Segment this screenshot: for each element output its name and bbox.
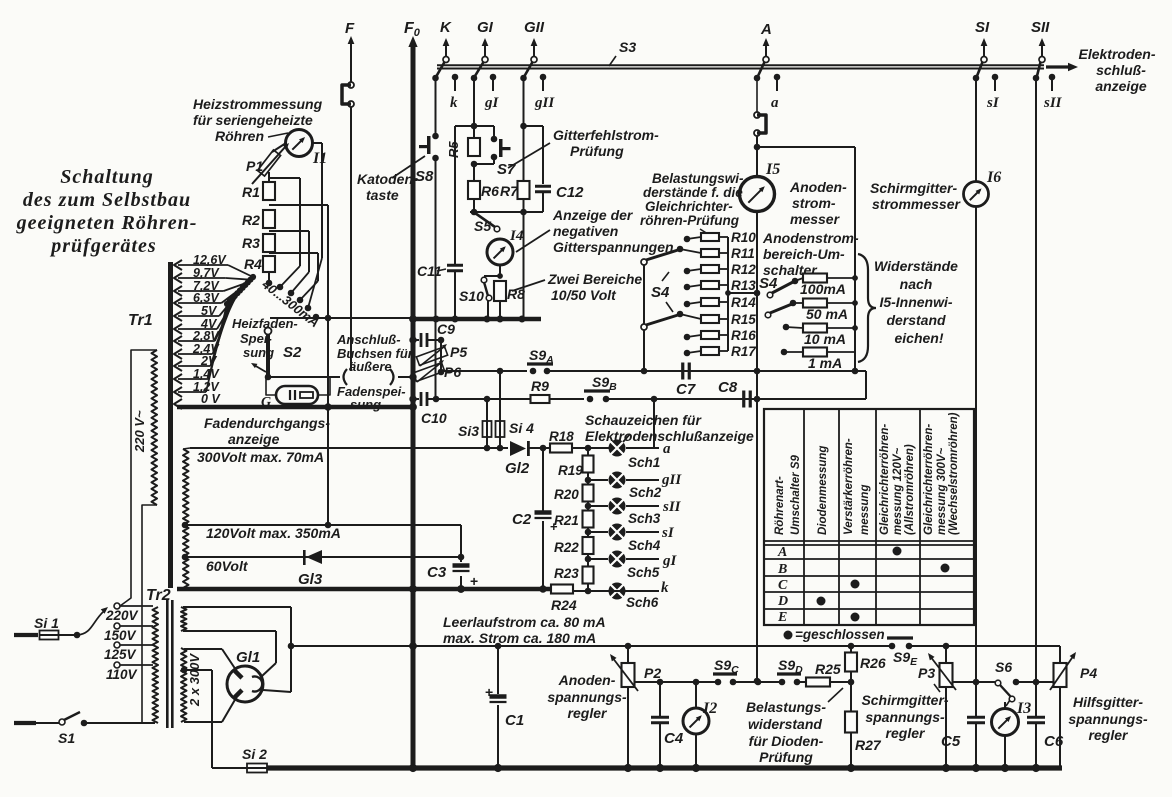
svg-text:Elektroden-: Elektroden- [1078, 46, 1155, 62]
svg-text:Hilfsgitter-: Hilfsgitter- [1073, 694, 1143, 710]
svg-text:C5: C5 [941, 733, 961, 750]
svg-text:Widerstände: Widerstände [874, 258, 958, 274]
svg-text:I1: I1 [312, 150, 327, 167]
svg-text:Anschluß-: Anschluß- [336, 332, 401, 347]
svg-text:C2: C2 [512, 511, 532, 528]
svg-text:bereich-Um-: bereich-Um- [763, 246, 845, 262]
svg-text:Schauzeichen für: Schauzeichen für [585, 412, 702, 428]
svg-text:gII: gII [534, 95, 555, 111]
svg-text:R16: R16 [731, 328, 756, 343]
svg-text:Röhrenart-: Röhrenart- [774, 476, 786, 535]
svg-text:taste: taste [366, 187, 399, 203]
svg-text:geeigneten Röhren-: geeigneten Röhren- [16, 212, 198, 234]
svg-text:derstände f. die: derstände f. die [643, 185, 743, 200]
svg-text:60Volt: 60Volt [206, 558, 249, 574]
svg-text:C10: C10 [421, 410, 447, 426]
svg-text:prüfgerätes: prüfgerätes [49, 235, 156, 257]
svg-text:spannungs-: spannungs- [865, 709, 945, 725]
svg-text:Si 1: Si 1 [34, 615, 59, 631]
svg-text:R19: R19 [558, 463, 583, 478]
svg-text:Elektrodenschlußanzeige: Elektrodenschlußanzeige [585, 428, 754, 444]
svg-text:S1: S1 [58, 730, 75, 746]
svg-text:R12: R12 [731, 262, 756, 277]
svg-text:Si 4: Si 4 [509, 420, 534, 436]
svg-text:R17: R17 [731, 344, 757, 359]
svg-text:S6: S6 [995, 659, 1012, 675]
svg-text:R10: R10 [731, 230, 756, 245]
svg-text:I4: I4 [509, 228, 524, 244]
svg-text:spannungs-: spannungs- [547, 689, 627, 705]
svg-text:SII: SII [1031, 19, 1050, 36]
svg-text:Tr1: Tr1 [128, 312, 153, 329]
svg-text:Gleichrichterröhren-: Gleichrichterröhren- [879, 424, 891, 535]
svg-text:regler: regler [1089, 727, 1129, 743]
svg-text:R6: R6 [481, 183, 499, 199]
svg-text:C6: C6 [1044, 733, 1064, 750]
svg-text:sI: sI [661, 525, 675, 541]
svg-text:R2: R2 [242, 212, 260, 228]
svg-text:220 V~: 220 V~ [132, 410, 147, 453]
svg-text:R5: R5 [446, 141, 461, 158]
svg-text:R13: R13 [731, 278, 756, 293]
svg-text:gII: gII [661, 472, 682, 488]
svg-text:C7: C7 [676, 381, 696, 398]
svg-text:110V: 110V [106, 667, 138, 682]
svg-text:100mA: 100mA [800, 281, 846, 297]
svg-text:C12: C12 [556, 184, 584, 201]
svg-text:0 V: 0 V [201, 392, 221, 406]
svg-text:äußere: äußere [349, 359, 392, 374]
svg-text:sI: sI [986, 95, 1000, 111]
svg-text:Gitterfehlstrom-: Gitterfehlstrom- [553, 127, 659, 143]
svg-text:G: G [261, 395, 271, 410]
svg-text:messung 120V~: messung 120V~ [892, 447, 904, 535]
svg-text:P5: P5 [450, 344, 467, 360]
svg-text:Röhren: Röhren [215, 128, 264, 144]
svg-text:k: k [661, 580, 669, 596]
svg-text:S3: S3 [619, 39, 636, 55]
svg-text:E: E [777, 610, 787, 625]
svg-text:Prüfung: Prüfung [570, 143, 624, 159]
svg-text:messung: messung [859, 485, 871, 536]
svg-text:Gl2: Gl2 [505, 460, 530, 477]
svg-text:C8: C8 [718, 379, 738, 396]
svg-text:S5: S5 [474, 218, 491, 234]
svg-text:für seriengeheizte: für seriengeheizte [193, 112, 313, 128]
svg-text:Gl3: Gl3 [298, 571, 323, 588]
svg-text:R15: R15 [731, 312, 756, 327]
svg-text:Sch5: Sch5 [627, 565, 660, 580]
svg-text:Sch3: Sch3 [628, 511, 661, 526]
svg-text:anzeige: anzeige [1095, 78, 1147, 94]
svg-text:eichen!: eichen! [894, 330, 943, 346]
svg-text:nach: nach [900, 276, 933, 292]
svg-text:sung: sung [350, 397, 381, 412]
svg-text:Sch4: Sch4 [628, 538, 661, 553]
svg-text:regler: regler [568, 705, 608, 721]
svg-text:10 mA: 10 mA [804, 331, 846, 347]
svg-text:k: k [450, 95, 458, 111]
svg-text:Schirmgitter-: Schirmgitter- [870, 180, 957, 196]
svg-text:P2: P2 [644, 665, 661, 681]
svg-text:K: K [440, 19, 452, 36]
svg-text:R14: R14 [731, 295, 756, 310]
svg-text:(Allstromröhren): (Allstromröhren) [904, 444, 916, 535]
svg-text:Gl1: Gl1 [236, 649, 260, 666]
svg-text:für Dioden-: für Dioden- [749, 733, 824, 749]
svg-text:derstand: derstand [886, 312, 946, 328]
svg-text:I5: I5 [765, 161, 780, 178]
svg-text:Anodenstrom-: Anodenstrom- [762, 230, 859, 246]
svg-text:P3: P3 [918, 665, 935, 681]
svg-text:R22: R22 [554, 540, 579, 555]
svg-text:Schirmgitter-: Schirmgitter- [861, 692, 948, 708]
svg-text:Heizstrommessung: Heizstrommessung [193, 96, 323, 112]
svg-text:P1: P1 [246, 158, 263, 174]
svg-text:R3: R3 [242, 235, 260, 251]
svg-text:F: F [345, 20, 355, 37]
svg-text:+: + [470, 573, 478, 589]
svg-text:GII: GII [524, 19, 545, 36]
svg-text:+: + [550, 519, 558, 534]
svg-text:C4: C4 [664, 730, 684, 747]
svg-text:2 x 300V: 2 x 300V [187, 653, 202, 707]
svg-text:röhren-Prüfung: röhren-Prüfung [640, 213, 740, 228]
svg-text:Prüfung: Prüfung [759, 749, 813, 765]
svg-text:Si3: Si3 [458, 423, 479, 439]
svg-text:Zwei Bereiche: Zwei Bereiche [547, 271, 642, 287]
svg-text:Anoden-: Anoden- [558, 672, 616, 688]
svg-text:Gleichrichter-: Gleichrichter- [645, 199, 733, 214]
svg-text:Umschalter S9: Umschalter S9 [790, 454, 802, 535]
svg-text:=geschlossen: =geschlossen [795, 627, 885, 642]
svg-text:max. Strom ca. 180 mA: max. Strom ca. 180 mA [443, 630, 596, 646]
svg-text:Gleichrichterröhren-: Gleichrichterröhren- [923, 424, 935, 535]
svg-text:R25: R25 [815, 661, 841, 677]
svg-text:SI: SI [975, 19, 990, 36]
svg-text:Anoden-: Anoden- [789, 179, 847, 195]
svg-text:I6: I6 [986, 169, 1001, 186]
svg-text:C3: C3 [427, 564, 447, 581]
svg-text:strommesser: strommesser [872, 196, 961, 212]
svg-text:R18: R18 [549, 429, 574, 444]
svg-text:R24: R24 [551, 597, 577, 613]
svg-text:spannungs-: spannungs- [1068, 711, 1148, 727]
svg-text:I3: I3 [1016, 700, 1031, 717]
svg-text:Si 2: Si 2 [242, 746, 267, 762]
svg-text:I2: I2 [702, 700, 717, 717]
svg-text:R20: R20 [554, 487, 579, 502]
svg-text:Katoden-: Katoden- [357, 171, 418, 187]
svg-text:gI: gI [484, 95, 500, 111]
svg-text:300Volt max. 70mA: 300Volt max. 70mA [197, 449, 324, 465]
svg-text:B: B [777, 562, 787, 577]
svg-text:I5-Innenwi-: I5-Innenwi- [879, 294, 952, 310]
svg-text:125V: 125V [104, 647, 137, 662]
svg-text:schluß-: schluß- [1096, 62, 1146, 78]
svg-text:120Volt max. 350mA: 120Volt max. 350mA [206, 525, 341, 541]
svg-text:S4: S4 [651, 284, 670, 301]
svg-text:Verstärkerröhren-: Verstärkerröhren- [843, 438, 855, 535]
svg-text:A: A [777, 545, 787, 560]
svg-text:sung: sung [243, 345, 274, 360]
svg-text:Belastungswi-: Belastungswi- [652, 171, 744, 186]
svg-text:messer: messer [790, 211, 841, 227]
svg-text:S8: S8 [415, 168, 434, 185]
svg-text:sII: sII [1043, 95, 1063, 111]
svg-text:GI: GI [477, 19, 494, 36]
svg-text:messung 300V~: messung 300V~ [936, 447, 948, 535]
svg-text:Sch6: Sch6 [626, 595, 659, 610]
svg-text:Anzeige der: Anzeige der [552, 207, 634, 223]
svg-text:R4: R4 [244, 256, 262, 272]
svg-text:Sch2: Sch2 [629, 485, 662, 500]
svg-text:(Wechselstromröhren): (Wechselstromröhren) [948, 412, 960, 535]
svg-text:R11: R11 [731, 246, 755, 261]
svg-text:gI: gI [662, 553, 678, 569]
svg-text:a: a [771, 95, 779, 111]
svg-text:negativen: negativen [553, 223, 618, 239]
svg-text:S2: S2 [283, 344, 302, 361]
svg-text:sII: sII [662, 499, 682, 515]
svg-text:R1: R1 [242, 184, 260, 200]
svg-text:R26: R26 [860, 655, 886, 671]
svg-text:A: A [760, 21, 772, 38]
svg-text:widerstand: widerstand [748, 716, 822, 732]
svg-text:10/50 Volt: 10/50 Volt [551, 287, 617, 303]
svg-text:des zum Selbstbau: des zum Selbstbau [23, 189, 191, 211]
svg-text:C1: C1 [505, 712, 524, 729]
svg-text:Fadendurchgangs-: Fadendurchgangs- [204, 415, 330, 431]
svg-text:Belastungs-: Belastungs- [746, 699, 826, 715]
svg-text:anzeige: anzeige [228, 431, 280, 447]
svg-text:S10: S10 [459, 288, 484, 304]
svg-text:Sch1: Sch1 [628, 455, 660, 470]
svg-text:C: C [778, 578, 788, 593]
svg-text:Diodenmessung: Diodenmessung [817, 446, 829, 535]
svg-text:S7: S7 [497, 161, 516, 178]
svg-text:R7: R7 [500, 183, 519, 199]
svg-text:220V: 220V [105, 608, 139, 623]
svg-text:Schaltung: Schaltung [60, 166, 153, 188]
svg-text:Leerlaufstrom ca. 80 mA: Leerlaufstrom ca. 80 mA [443, 614, 606, 630]
svg-text:R27: R27 [855, 737, 882, 753]
svg-text:regler: regler [886, 725, 926, 741]
svg-text:50 mA: 50 mA [806, 306, 848, 322]
svg-text:150V: 150V [104, 628, 137, 643]
svg-text:Spei-: Spei- [240, 331, 272, 346]
svg-text:C9: C9 [437, 321, 455, 337]
svg-text:Gitterspannungen: Gitterspannungen [553, 239, 674, 255]
svg-text:P4: P4 [1080, 665, 1097, 681]
svg-text:R23: R23 [554, 566, 579, 581]
svg-text:1 mA: 1 mA [808, 355, 842, 371]
svg-text:strom-: strom- [792, 195, 836, 211]
svg-text:R9: R9 [531, 378, 549, 394]
svg-text:D: D [777, 594, 788, 609]
svg-text:R21: R21 [554, 513, 579, 528]
